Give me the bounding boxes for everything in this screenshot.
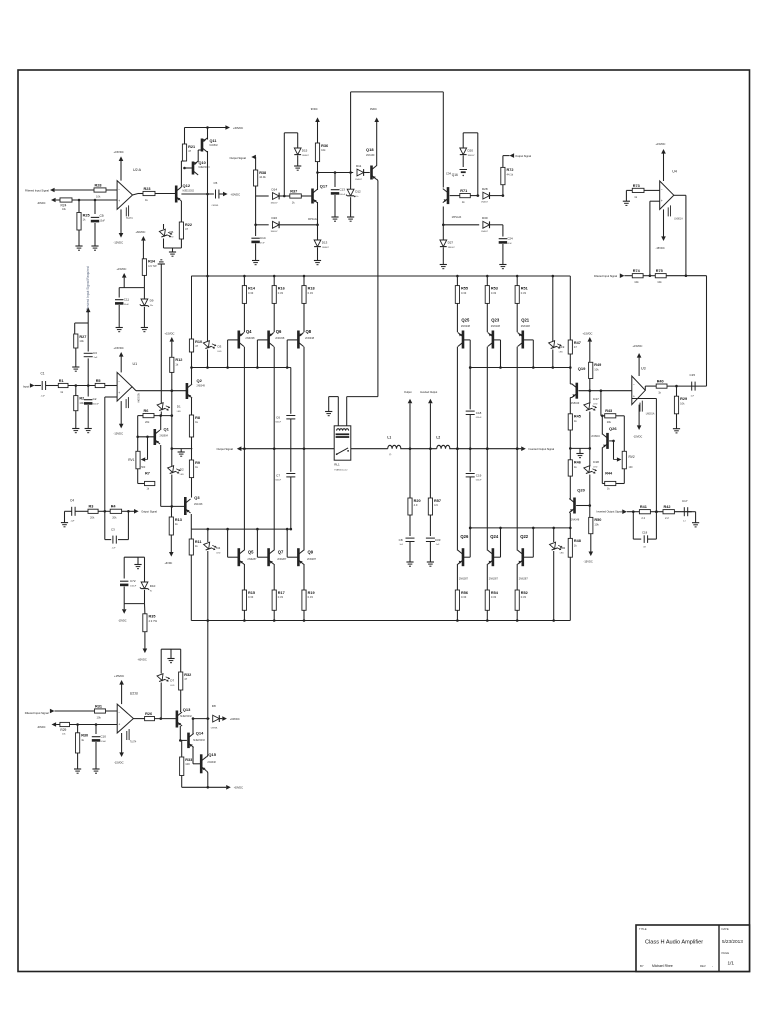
svg-text:C17: C17 bbox=[682, 499, 688, 503]
svg-text:CERML: CERML bbox=[212, 205, 220, 207]
svg-text:LM301A: LM301A bbox=[646, 413, 655, 416]
svg-text:C10: C10 bbox=[100, 735, 106, 739]
svg-text:2N6338: 2N6338 bbox=[305, 336, 315, 340]
svg-text:Q5: Q5 bbox=[248, 550, 254, 555]
svg-text:D30: D30 bbox=[482, 216, 488, 220]
svg-text:R19: R19 bbox=[308, 591, 315, 595]
svg-text:D10: D10 bbox=[150, 584, 156, 588]
svg-text:1N4007: 1N4007 bbox=[355, 179, 363, 181]
svg-text:D28: D28 bbox=[482, 187, 488, 191]
svg-text:10k: 10k bbox=[634, 280, 639, 284]
svg-text:Q21: Q21 bbox=[521, 318, 530, 323]
svg-text:4.9 7W: 4.9 7W bbox=[148, 264, 157, 268]
svg-text:2N6338: 2N6338 bbox=[521, 324, 531, 328]
svg-text:100uF: 100uF bbox=[130, 585, 137, 587]
svg-text:Q9: Q9 bbox=[308, 550, 314, 555]
svg-text:R52: R52 bbox=[521, 591, 528, 595]
svg-text:R53: R53 bbox=[491, 286, 498, 290]
svg-text:MJE15032: MJE15032 bbox=[180, 715, 192, 718]
svg-text:R35: R35 bbox=[149, 615, 156, 619]
svg-text:R5: R5 bbox=[96, 379, 101, 383]
svg-text:D11: D11 bbox=[356, 164, 362, 168]
svg-text:1N4007: 1N4007 bbox=[302, 155, 310, 157]
svg-text:600uF: 600uF bbox=[275, 422, 281, 424]
svg-text:Output: Output bbox=[404, 391, 412, 394]
svg-text:LM301A: LM301A bbox=[674, 218, 683, 221]
svg-text:R7: R7 bbox=[145, 472, 150, 476]
svg-text:CERML: CERML bbox=[211, 728, 219, 730]
svg-text:R37: R37 bbox=[290, 189, 297, 193]
svg-text:R75: R75 bbox=[656, 269, 663, 273]
svg-text:D9: D9 bbox=[150, 299, 154, 303]
svg-text:Filtered Input Signal: Filtered Input Signal bbox=[25, 188, 49, 192]
svg-text:Q16: Q16 bbox=[452, 173, 458, 177]
svg-text:0.33: 0.33 bbox=[248, 291, 254, 295]
svg-text:+: + bbox=[118, 199, 120, 203]
svg-text:0.33: 0.33 bbox=[308, 291, 314, 295]
svg-text:Q26: Q26 bbox=[460, 534, 469, 539]
svg-text:Q3: Q3 bbox=[194, 495, 200, 500]
svg-text:T9AS1D12-12: T9AS1D12-12 bbox=[334, 468, 348, 471]
svg-text:R27: R27 bbox=[79, 335, 86, 339]
svg-text:-: - bbox=[712, 964, 713, 968]
svg-text:MJE15032: MJE15032 bbox=[183, 190, 195, 193]
svg-text:D18: D18 bbox=[593, 460, 599, 464]
svg-text:LED: LED bbox=[177, 411, 182, 413]
svg-text:2N3439: 2N3439 bbox=[366, 154, 375, 157]
svg-text:+15VDC: +15VDC bbox=[114, 150, 124, 154]
svg-text:D17: D17 bbox=[593, 397, 599, 401]
svg-text:C9: C9 bbox=[100, 214, 104, 218]
svg-text:10k: 10k bbox=[594, 523, 599, 527]
svg-text:R48: R48 bbox=[574, 539, 581, 543]
svg-text:Q4: Q4 bbox=[246, 329, 252, 334]
svg-text:+15VDC: +15VDC bbox=[656, 142, 666, 146]
svg-text:REV: REV bbox=[700, 964, 706, 968]
svg-text:2N6287: 2N6287 bbox=[489, 577, 499, 581]
svg-text:R1: R1 bbox=[59, 379, 64, 383]
svg-text:100: 100 bbox=[185, 762, 190, 766]
svg-text:R56: R56 bbox=[461, 591, 468, 595]
svg-text:2N6338: 2N6338 bbox=[245, 336, 255, 340]
svg-text:R29: R29 bbox=[60, 728, 66, 732]
svg-text:R12: R12 bbox=[175, 358, 182, 362]
svg-text:5/23/2013: 5/23/2013 bbox=[722, 939, 743, 944]
svg-text:1N4007: 1N4007 bbox=[448, 247, 456, 249]
svg-text:0.33: 0.33 bbox=[308, 595, 314, 599]
svg-text:-60VDC: -60VDC bbox=[138, 658, 147, 662]
svg-text:R44: R44 bbox=[605, 472, 613, 476]
svg-text:Inverted Output Signal: Inverted Output Signal bbox=[597, 509, 623, 513]
svg-text:+: + bbox=[633, 394, 635, 398]
svg-text:NE5534A: NE5534A bbox=[137, 393, 140, 403]
svg-text:10k: 10k bbox=[79, 339, 84, 343]
svg-text:47: 47 bbox=[188, 149, 191, 153]
svg-text:Q15: Q15 bbox=[208, 752, 216, 757]
svg-text:R23: R23 bbox=[144, 187, 151, 191]
svg-text:47uF: 47uF bbox=[260, 242, 265, 244]
svg-text:+: + bbox=[118, 723, 120, 727]
svg-text:600uF: 600uF bbox=[275, 480, 281, 482]
svg-text:1N4007: 1N4007 bbox=[322, 247, 330, 249]
svg-text:2.2: 2.2 bbox=[641, 516, 645, 520]
svg-text:R72: R72 bbox=[507, 168, 514, 172]
svg-text:R22: R22 bbox=[185, 223, 192, 227]
svg-text:2N6287: 2N6287 bbox=[519, 577, 529, 581]
svg-text:R2: R2 bbox=[79, 396, 84, 400]
svg-text:TITLE: TITLE bbox=[639, 927, 647, 931]
svg-text:R33: R33 bbox=[185, 758, 192, 762]
svg-text:D27: D27 bbox=[448, 241, 454, 245]
svg-text:D3: D3 bbox=[218, 345, 222, 349]
svg-text:Q17: Q17 bbox=[320, 184, 328, 189]
svg-text:R16: R16 bbox=[278, 286, 285, 290]
svg-text:LED: LED bbox=[593, 466, 598, 468]
svg-text:2N5049: 2N5049 bbox=[197, 385, 206, 388]
svg-text:R20: R20 bbox=[414, 499, 421, 503]
svg-text:C4: C4 bbox=[70, 499, 74, 503]
svg-text:+15VDC: +15VDC bbox=[165, 332, 175, 336]
svg-text:R55: R55 bbox=[461, 286, 468, 290]
svg-text:0.33: 0.33 bbox=[491, 291, 497, 295]
svg-text:C7: C7 bbox=[276, 474, 280, 478]
svg-text:-60VDC: -60VDC bbox=[231, 192, 241, 196]
svg-text:Q2: Q2 bbox=[197, 378, 203, 383]
svg-text:9VDC: 9VDC bbox=[311, 107, 318, 111]
svg-text:1N4007: 1N4007 bbox=[468, 155, 476, 157]
svg-text:2N6287: 2N6287 bbox=[459, 577, 469, 581]
svg-text:Q7: Q7 bbox=[278, 550, 284, 555]
svg-text:D14: D14 bbox=[272, 187, 278, 191]
svg-text:C11: C11 bbox=[124, 298, 130, 302]
svg-text:−: − bbox=[118, 188, 120, 192]
svg-text:0.33: 0.33 bbox=[278, 595, 284, 599]
svg-text:R14: R14 bbox=[248, 286, 256, 290]
svg-text:Class H Audio Amplifier: Class H Audio Amplifier bbox=[645, 940, 703, 946]
svg-text:1N4007: 1N4007 bbox=[481, 231, 489, 233]
svg-text:10k: 10k bbox=[680, 401, 685, 405]
svg-text:-15VDC: -15VDC bbox=[114, 761, 124, 765]
svg-text:Q24: Q24 bbox=[490, 534, 499, 539]
svg-text:Q22: Q22 bbox=[520, 534, 529, 539]
svg-text:Q19: Q19 bbox=[578, 366, 586, 371]
svg-text:MJ4502: MJ4502 bbox=[210, 145, 219, 147]
svg-text:Output Signal: Output Signal bbox=[141, 510, 157, 514]
svg-text:D32: D32 bbox=[560, 546, 566, 550]
svg-text:Q12: Q12 bbox=[183, 183, 191, 188]
svg-text:U2:B: U2:B bbox=[130, 692, 139, 696]
svg-text:D15: D15 bbox=[302, 149, 308, 153]
svg-text:-15VDC: -15VDC bbox=[633, 435, 642, 439]
svg-text:Inverted Output: Inverted Output bbox=[420, 391, 438, 394]
svg-text:+60VDC: +60VDC bbox=[136, 230, 146, 234]
svg-text:L1: L1 bbox=[387, 436, 391, 440]
svg-text:D20: D20 bbox=[468, 149, 474, 153]
svg-text:100uF: 100uF bbox=[339, 194, 345, 196]
svg-text:Output Signal: Output Signal bbox=[230, 156, 247, 160]
svg-text:-15VDC: -15VDC bbox=[114, 241, 124, 245]
svg-text:MPSA43: MPSA43 bbox=[452, 216, 462, 219]
svg-text:-60VDC: -60VDC bbox=[37, 726, 46, 729]
svg-text:Q26: Q26 bbox=[609, 426, 617, 431]
svg-text:−: − bbox=[118, 711, 120, 715]
svg-text:2N4348: 2N4348 bbox=[194, 503, 203, 506]
svg-text:C19: C19 bbox=[476, 474, 482, 478]
svg-text:44.1k: 44.1k bbox=[507, 173, 514, 177]
svg-text:+: + bbox=[118, 391, 120, 395]
svg-text:C33: C33 bbox=[435, 538, 441, 542]
svg-text:+: + bbox=[661, 199, 663, 203]
svg-text:D6: D6 bbox=[170, 230, 174, 234]
svg-text:R43: R43 bbox=[605, 409, 612, 413]
svg-text:D4: D4 bbox=[216, 546, 220, 550]
svg-text:R11: R11 bbox=[195, 540, 202, 544]
svg-text:Michael Rhee: Michael Rhee bbox=[652, 964, 673, 968]
svg-text:R74: R74 bbox=[633, 269, 641, 273]
svg-text:C2: C2 bbox=[93, 397, 97, 401]
svg-text:10k: 10k bbox=[79, 401, 84, 405]
svg-text:+15VDC: +15VDC bbox=[583, 332, 593, 336]
svg-text:2N3904: 2N3904 bbox=[591, 435, 600, 438]
svg-text:R36: R36 bbox=[321, 144, 328, 148]
svg-text:LED: LED bbox=[218, 351, 223, 353]
svg-text:U4: U4 bbox=[672, 170, 677, 174]
svg-text:0.33: 0.33 bbox=[461, 291, 467, 295]
svg-text:R21: R21 bbox=[188, 145, 195, 149]
svg-text:LED: LED bbox=[593, 403, 598, 405]
svg-text:R45: R45 bbox=[574, 415, 581, 419]
svg-text:4.9 7W: 4.9 7W bbox=[149, 619, 158, 623]
svg-text:20k: 20k bbox=[145, 420, 150, 424]
svg-text:600uF: 600uF bbox=[93, 403, 100, 405]
svg-text:+15VDC: +15VDC bbox=[633, 344, 643, 348]
svg-text:Output Signal: Output Signal bbox=[217, 447, 234, 451]
svg-text:2N6287: 2N6287 bbox=[307, 557, 317, 561]
svg-text:R54: R54 bbox=[491, 591, 499, 595]
svg-text:R15: R15 bbox=[248, 591, 255, 595]
svg-text:+60VDC: +60VDC bbox=[230, 717, 240, 721]
svg-text:C18: C18 bbox=[476, 411, 482, 415]
svg-text:10k: 10k bbox=[594, 368, 599, 372]
svg-text:R13: R13 bbox=[175, 518, 182, 522]
svg-text:PAGE: PAGE bbox=[722, 951, 730, 955]
svg-text:RV1: RV1 bbox=[128, 458, 134, 462]
svg-text:4.9: 4.9 bbox=[414, 503, 418, 507]
svg-text:1/1: 1/1 bbox=[728, 961, 735, 966]
svg-text:2N4348: 2N4348 bbox=[207, 761, 216, 764]
svg-text:10k: 10k bbox=[97, 715, 102, 719]
svg-text:Q14: Q14 bbox=[196, 731, 204, 736]
svg-text:R18: R18 bbox=[308, 286, 315, 290]
svg-text:R50: R50 bbox=[594, 518, 601, 522]
svg-text:R17: R17 bbox=[278, 591, 285, 595]
svg-text:+15VDC: +15VDC bbox=[117, 267, 127, 271]
svg-text:2N6338: 2N6338 bbox=[275, 336, 285, 340]
svg-text:47uF: 47uF bbox=[507, 243, 512, 245]
svg-text:Filtered Input Signal: Filtered Input Signal bbox=[594, 274, 617, 278]
svg-text:R25: R25 bbox=[83, 213, 90, 217]
svg-text:Input: Input bbox=[23, 384, 29, 388]
svg-text:Inverted Output Signal: Inverted Output Signal bbox=[528, 447, 554, 451]
svg-text:0.33: 0.33 bbox=[491, 595, 497, 599]
svg-text:C8: C8 bbox=[399, 538, 403, 542]
svg-text:+15VDC: +15VDC bbox=[114, 346, 124, 350]
svg-text:−: − bbox=[661, 188, 663, 192]
svg-text:Q25: Q25 bbox=[461, 318, 470, 323]
svg-text:MJE15033: MJE15033 bbox=[199, 167, 211, 169]
svg-text:0.33: 0.33 bbox=[278, 291, 284, 295]
svg-text:D13: D13 bbox=[322, 241, 328, 245]
svg-text:1N4007: 1N4007 bbox=[481, 202, 489, 204]
svg-text:LED: LED bbox=[180, 474, 185, 476]
svg-text:2N4348: 2N4348 bbox=[571, 518, 580, 521]
svg-text:R42: R42 bbox=[664, 505, 671, 509]
svg-text:LED: LED bbox=[170, 237, 175, 239]
svg-text:D2: D2 bbox=[180, 468, 184, 472]
svg-text:650uF: 650uF bbox=[476, 417, 482, 419]
svg-text:2N6338: 2N6338 bbox=[461, 324, 471, 328]
svg-text:R8: R8 bbox=[195, 416, 200, 420]
svg-text:47: 47 bbox=[185, 227, 188, 231]
svg-text:+15VDC: +15VDC bbox=[114, 674, 124, 678]
svg-text:Q11: Q11 bbox=[210, 139, 217, 143]
svg-text:D7: D7 bbox=[170, 679, 174, 683]
svg-text:20k: 20k bbox=[112, 516, 117, 520]
svg-text:MPSA42: MPSA42 bbox=[308, 218, 318, 221]
svg-text:-15VDC: -15VDC bbox=[118, 619, 127, 622]
svg-text:R51: R51 bbox=[521, 286, 528, 290]
svg-text:R32: R32 bbox=[184, 673, 191, 677]
svg-text:1N4007: 1N4007 bbox=[271, 231, 279, 233]
svg-text:R10: R10 bbox=[195, 340, 202, 344]
svg-text:R28: R28 bbox=[95, 183, 102, 187]
svg-text:TL074: TL074 bbox=[126, 218, 133, 220]
svg-text:R47: R47 bbox=[574, 341, 581, 345]
svg-text:R40: R40 bbox=[657, 380, 664, 384]
svg-text:R31: R31 bbox=[95, 704, 102, 708]
svg-text:R29: R29 bbox=[680, 397, 687, 401]
svg-text:C6: C6 bbox=[276, 416, 280, 420]
svg-text:Q20: Q20 bbox=[577, 488, 585, 493]
svg-text:D12: D12 bbox=[355, 190, 361, 194]
svg-text:20k: 20k bbox=[607, 420, 612, 424]
svg-text:R9: R9 bbox=[195, 461, 200, 465]
svg-text:-15VDC: -15VDC bbox=[584, 560, 593, 564]
svg-text:Q23: Q23 bbox=[491, 318, 500, 323]
svg-text:Q6: Q6 bbox=[276, 329, 282, 334]
svg-text:C3: C3 bbox=[111, 528, 115, 532]
svg-text:BY: BY bbox=[640, 964, 644, 968]
svg-text:-60VDC: -60VDC bbox=[37, 202, 46, 205]
svg-text:1N4007: 1N4007 bbox=[271, 202, 279, 204]
svg-text:50uF: 50uF bbox=[124, 304, 130, 306]
svg-text:R30: R30 bbox=[81, 734, 88, 738]
svg-text:If Desired Input Signal Requir: If Desired Input Signal Required bbox=[86, 266, 90, 313]
svg-text:10uF: 10uF bbox=[100, 220, 106, 223]
svg-text:47: 47 bbox=[574, 345, 577, 349]
svg-text:C34: C34 bbox=[446, 172, 452, 176]
svg-text:LED: LED bbox=[216, 552, 221, 554]
svg-text:3.3uF: 3.3uF bbox=[100, 741, 106, 743]
svg-text:10k: 10k bbox=[657, 280, 662, 284]
svg-text:650uF: 650uF bbox=[476, 480, 482, 482]
svg-text:C13: C13 bbox=[339, 188, 345, 192]
svg-text:MJE15033: MJE15033 bbox=[193, 739, 205, 742]
svg-text:−: − bbox=[633, 383, 635, 387]
svg-text:D1: D1 bbox=[177, 405, 181, 409]
svg-text:Q1: Q1 bbox=[164, 427, 170, 432]
svg-text:0.33: 0.33 bbox=[461, 595, 467, 599]
svg-text:2N6287: 2N6287 bbox=[277, 557, 287, 561]
svg-text:Q8: Q8 bbox=[306, 329, 312, 334]
svg-text:4.9: 4.9 bbox=[434, 503, 438, 507]
svg-text:0.33: 0.33 bbox=[521, 595, 527, 599]
svg-text:-15VDC: -15VDC bbox=[114, 432, 124, 436]
svg-text:LED: LED bbox=[170, 685, 175, 687]
svg-text:C3: C3 bbox=[93, 351, 97, 355]
svg-text:RV2: RV2 bbox=[629, 455, 635, 459]
svg-text:D8: D8 bbox=[212, 704, 216, 708]
svg-text:C5: C5 bbox=[214, 181, 218, 185]
svg-text:20k: 20k bbox=[90, 516, 95, 520]
svg-text:.1uF: .1uF bbox=[41, 396, 46, 398]
svg-text:C24: C24 bbox=[507, 237, 513, 241]
svg-text:9VDC: 9VDC bbox=[370, 107, 377, 111]
svg-text:0.33: 0.33 bbox=[521, 291, 527, 295]
svg-text:R41: R41 bbox=[640, 505, 647, 509]
svg-text:500: 500 bbox=[141, 466, 146, 469]
svg-text:R46: R46 bbox=[574, 461, 581, 465]
svg-text:TL074: TL074 bbox=[130, 742, 137, 744]
svg-text:2N5049: 2N5049 bbox=[571, 402, 580, 405]
svg-text:Q18: Q18 bbox=[366, 147, 374, 152]
svg-text:-60VDC: -60VDC bbox=[234, 786, 243, 790]
svg-text:Q13: Q13 bbox=[183, 707, 191, 712]
svg-text:100: 100 bbox=[629, 466, 634, 469]
svg-text:L2: L2 bbox=[436, 436, 440, 440]
svg-text:+6VDC: +6VDC bbox=[165, 562, 173, 565]
svg-text:R71: R71 bbox=[460, 189, 467, 193]
svg-text:Filtered Input Signal: Filtered Input Signal bbox=[25, 711, 49, 715]
svg-text:10k: 10k bbox=[321, 148, 326, 152]
svg-text:2N6338: 2N6338 bbox=[491, 324, 501, 328]
svg-text:R34: R34 bbox=[148, 260, 156, 264]
svg-text:R38: R38 bbox=[259, 171, 266, 175]
svg-text:D16: D16 bbox=[272, 216, 278, 220]
svg-text:R73: R73 bbox=[633, 184, 640, 188]
svg-text:-15VDC: -15VDC bbox=[656, 246, 665, 250]
svg-text:47: 47 bbox=[184, 677, 187, 681]
svg-text:Output Signal: Output Signal bbox=[515, 154, 531, 158]
svg-text:RL1: RL1 bbox=[334, 463, 340, 467]
svg-text:2N3904: 2N3904 bbox=[160, 434, 169, 437]
svg-text:D19: D19 bbox=[559, 345, 565, 349]
svg-text:(2): (2) bbox=[389, 454, 392, 456]
svg-text:0.33: 0.33 bbox=[248, 595, 254, 599]
svg-text:+60VDC: +60VDC bbox=[233, 126, 243, 130]
svg-text:Q10: Q10 bbox=[199, 161, 206, 165]
svg-text:C18: C18 bbox=[642, 531, 648, 535]
svg-text:C14: C14 bbox=[260, 236, 266, 240]
svg-text:U3: U3 bbox=[641, 367, 646, 371]
svg-text:.1uF: .1uF bbox=[70, 521, 75, 523]
svg-text:2N6287: 2N6287 bbox=[247, 557, 257, 561]
svg-text:.1uF: .1uF bbox=[93, 357, 98, 359]
svg-text:R26: R26 bbox=[145, 712, 152, 716]
svg-text:44.9k: 44.9k bbox=[259, 175, 266, 179]
svg-text:U2:A: U2:A bbox=[133, 168, 142, 172]
svg-text:LED: LED bbox=[560, 552, 565, 554]
